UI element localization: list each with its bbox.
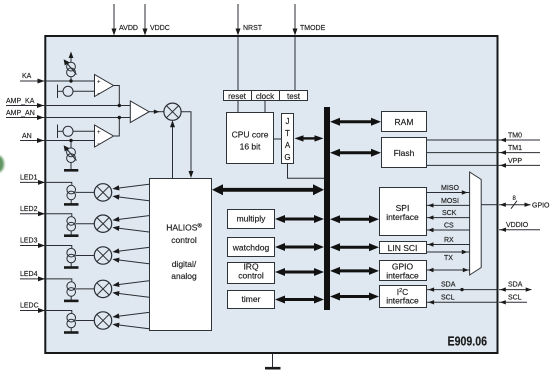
svg-text:VDDIO: VDDIO (506, 222, 529, 229)
CPU core block (227, 113, 274, 164)
wire reset to CPU (237, 101, 239, 112)
svg-text:interface: interface (386, 296, 419, 306)
svg-text:control: control (238, 271, 264, 281)
pin NRST (236, 4, 263, 36)
op-amp A3 (summing) (130, 101, 164, 123)
pin TMODE (293, 4, 326, 36)
ground (LEDC driver) (64, 331, 79, 334)
pin GPIO (481, 196, 550, 210)
svg-text:Flash: Flash (394, 148, 415, 158)
current source AN (64, 139, 79, 171)
pin AN (20, 133, 95, 143)
svg-text:interface: interface (386, 271, 419, 281)
svg-text:control: control (171, 235, 197, 245)
svg-text:analog: analog (171, 271, 197, 281)
svg-text:MISO: MISO (441, 185, 459, 192)
pin AVDD (112, 4, 138, 36)
svg-text:16 bit: 16 bit (240, 142, 261, 152)
SPI interface block (380, 188, 427, 236)
svg-text:LEDC: LEDC (20, 303, 39, 310)
wire TMODE to test (294, 37, 296, 90)
svg-text:AN: AN (22, 133, 32, 140)
svg-text:multiply: multiply (237, 214, 267, 224)
wire clock to CPU (264, 101, 266, 112)
op-amp A1 (KA) (95, 75, 122, 108)
bus arrow JTAG-bus (295, 135, 324, 141)
bus arrow IRQ-bus (275, 268, 324, 276)
IRQ control block (228, 262, 275, 284)
LIN SCI block (380, 242, 427, 254)
LED driver row 2 (20, 206, 149, 236)
svg-text:AMP_AN: AMP_AN (6, 110, 35, 117)
LED driver row C (20, 303, 149, 333)
LED driver row 1 (20, 175, 149, 205)
svg-text:SDA: SDA (441, 282, 456, 289)
svg-text:RAM: RAM (395, 117, 414, 127)
mixer X1 (164, 103, 181, 120)
JTAG block (282, 114, 294, 164)
svg-text:A: A (285, 141, 291, 150)
svg-text:reset: reset (228, 92, 247, 101)
svg-text:SCL: SCL (508, 294, 522, 301)
svg-text:GPIO: GPIO (532, 203, 550, 210)
svg-text:TX: TX (444, 255, 453, 262)
net CS (426, 223, 470, 233)
svg-text:NRST: NRST (243, 25, 263, 32)
pin VDDC (143, 4, 170, 36)
junction A1 output / AMP_KA net (118, 104, 121, 107)
I2C interface block (380, 286, 427, 308)
junction A2 output / AMP_AN net (118, 116, 121, 119)
svg-text:digital/: digital/ (172, 259, 197, 269)
svg-text:AVDD: AVDD (119, 25, 138, 32)
current source KA (64, 52, 77, 83)
timer block (228, 291, 275, 309)
svg-text:SCK: SCK (442, 210, 457, 217)
bus arrow multiply-bus (275, 215, 324, 223)
net GPIO internal (426, 268, 470, 272)
bus arrow watchdog-bus (275, 243, 324, 251)
GPIO interface block (380, 261, 427, 281)
junction KA/current source (69, 79, 72, 82)
bus arrow bus-Flash (330, 149, 381, 157)
reset block (224, 91, 252, 102)
svg-text:timer: timer (242, 294, 261, 304)
LED driver row 4 (20, 271, 149, 301)
pin SDA (499, 282, 532, 292)
RAM block (382, 112, 427, 132)
svg-text:LED2: LED2 (20, 206, 38, 213)
system bus (324, 107, 330, 310)
svg-text:CPU core: CPU core (232, 130, 269, 140)
bus arrow bus-SPI (330, 215, 379, 223)
bus arrow bus-LIN (330, 243, 379, 251)
svg-text:E909.06: E909.06 (448, 333, 488, 348)
svg-text:VDDC: VDDC (150, 25, 170, 32)
chip body E909.06 (45, 36, 497, 353)
ground (LED2 driver) (64, 234, 79, 237)
pin VDDIO (499, 222, 540, 232)
pin AMP_KA (6, 98, 130, 108)
junction SDA net (460, 288, 463, 291)
pin SCL (499, 294, 527, 304)
svg-text:SDA: SDA (508, 282, 523, 289)
svg-text:-: - (98, 91, 100, 97)
offset source KA (58, 85, 95, 99)
pin VPP (427, 158, 540, 168)
wire mixer X1 output to HALIOS (181, 112, 193, 178)
svg-text:TM0: TM0 (508, 133, 522, 140)
bus arrow bus-I2C (330, 293, 379, 301)
ground (LED1 driver) (64, 203, 79, 206)
op-amp A2 (AN) (95, 116, 122, 148)
svg-text:TM1: TM1 (508, 145, 522, 152)
wire HALIOS to mixer X1 (170, 120, 175, 178)
svg-text:+: + (97, 130, 101, 136)
svg-text:LIN SCI: LIN SCI (388, 243, 418, 253)
mux trapezoid (470, 172, 482, 275)
multiply block (228, 210, 275, 229)
pin AMP_AN (6, 110, 130, 120)
svg-text:G: G (284, 153, 290, 162)
bus arrow bus-GPIO (330, 267, 379, 275)
junction AN/current source (69, 139, 72, 142)
svg-text:LED4: LED4 (20, 271, 38, 278)
wire NRST to reset (237, 37, 239, 90)
svg-text:RX: RX (444, 237, 454, 244)
svg-text:clock: clock (256, 92, 275, 101)
svg-text:MOSI: MOSI (441, 198, 459, 205)
bus arrow HALIOS-bus (212, 184, 324, 195)
ground pin (265, 354, 281, 368)
svg-text:+: + (97, 80, 101, 86)
net MOSI (426, 198, 470, 208)
svg-text:-: - (98, 142, 100, 148)
ground (AN current source) (64, 169, 78, 172)
clock block (252, 91, 280, 102)
net SDA internal (426, 282, 497, 292)
svg-text:J: J (286, 117, 290, 126)
ground (LED4 driver) (64, 300, 79, 303)
svg-text:LED3: LED3 (20, 238, 38, 245)
svg-text:T: T (285, 129, 290, 138)
bus arrow timer-bus (275, 296, 324, 304)
wire JTAG to bus (288, 164, 325, 178)
net TX (426, 250, 470, 262)
Flash block (382, 138, 427, 168)
svg-text:CS: CS (444, 223, 454, 230)
svg-text:SCL: SCL (441, 294, 455, 301)
svg-text:KA: KA (22, 73, 32, 80)
net MISO (426, 185, 470, 195)
svg-text:watchdog: watchdog (232, 243, 270, 253)
watchdog block (228, 238, 275, 257)
svg-text:VPP: VPP (508, 158, 522, 165)
LED driver row 3 (20, 238, 149, 268)
svg-text:interface: interface (386, 212, 419, 222)
net SCK (426, 210, 470, 220)
net SCL internal (426, 294, 497, 304)
wire CPU to JTAG (274, 138, 281, 140)
pin TM0 (427, 133, 540, 143)
test block (280, 91, 308, 102)
pin KA (20, 73, 95, 84)
svg-text:AMP_KA: AMP_KA (6, 98, 35, 105)
svg-text:HALIOS®: HALIOS® (166, 222, 202, 232)
svg-text:TMODE: TMODE (300, 25, 326, 32)
offset source AN (58, 125, 95, 139)
ground (LED3 driver) (64, 266, 79, 269)
svg-text:LED1: LED1 (20, 175, 38, 182)
svg-text:test: test (287, 92, 301, 101)
pin TM1 (427, 145, 540, 155)
bus arrow bus-RAM (330, 118, 381, 126)
HALIOS control block (150, 179, 212, 331)
net RX (426, 237, 470, 247)
